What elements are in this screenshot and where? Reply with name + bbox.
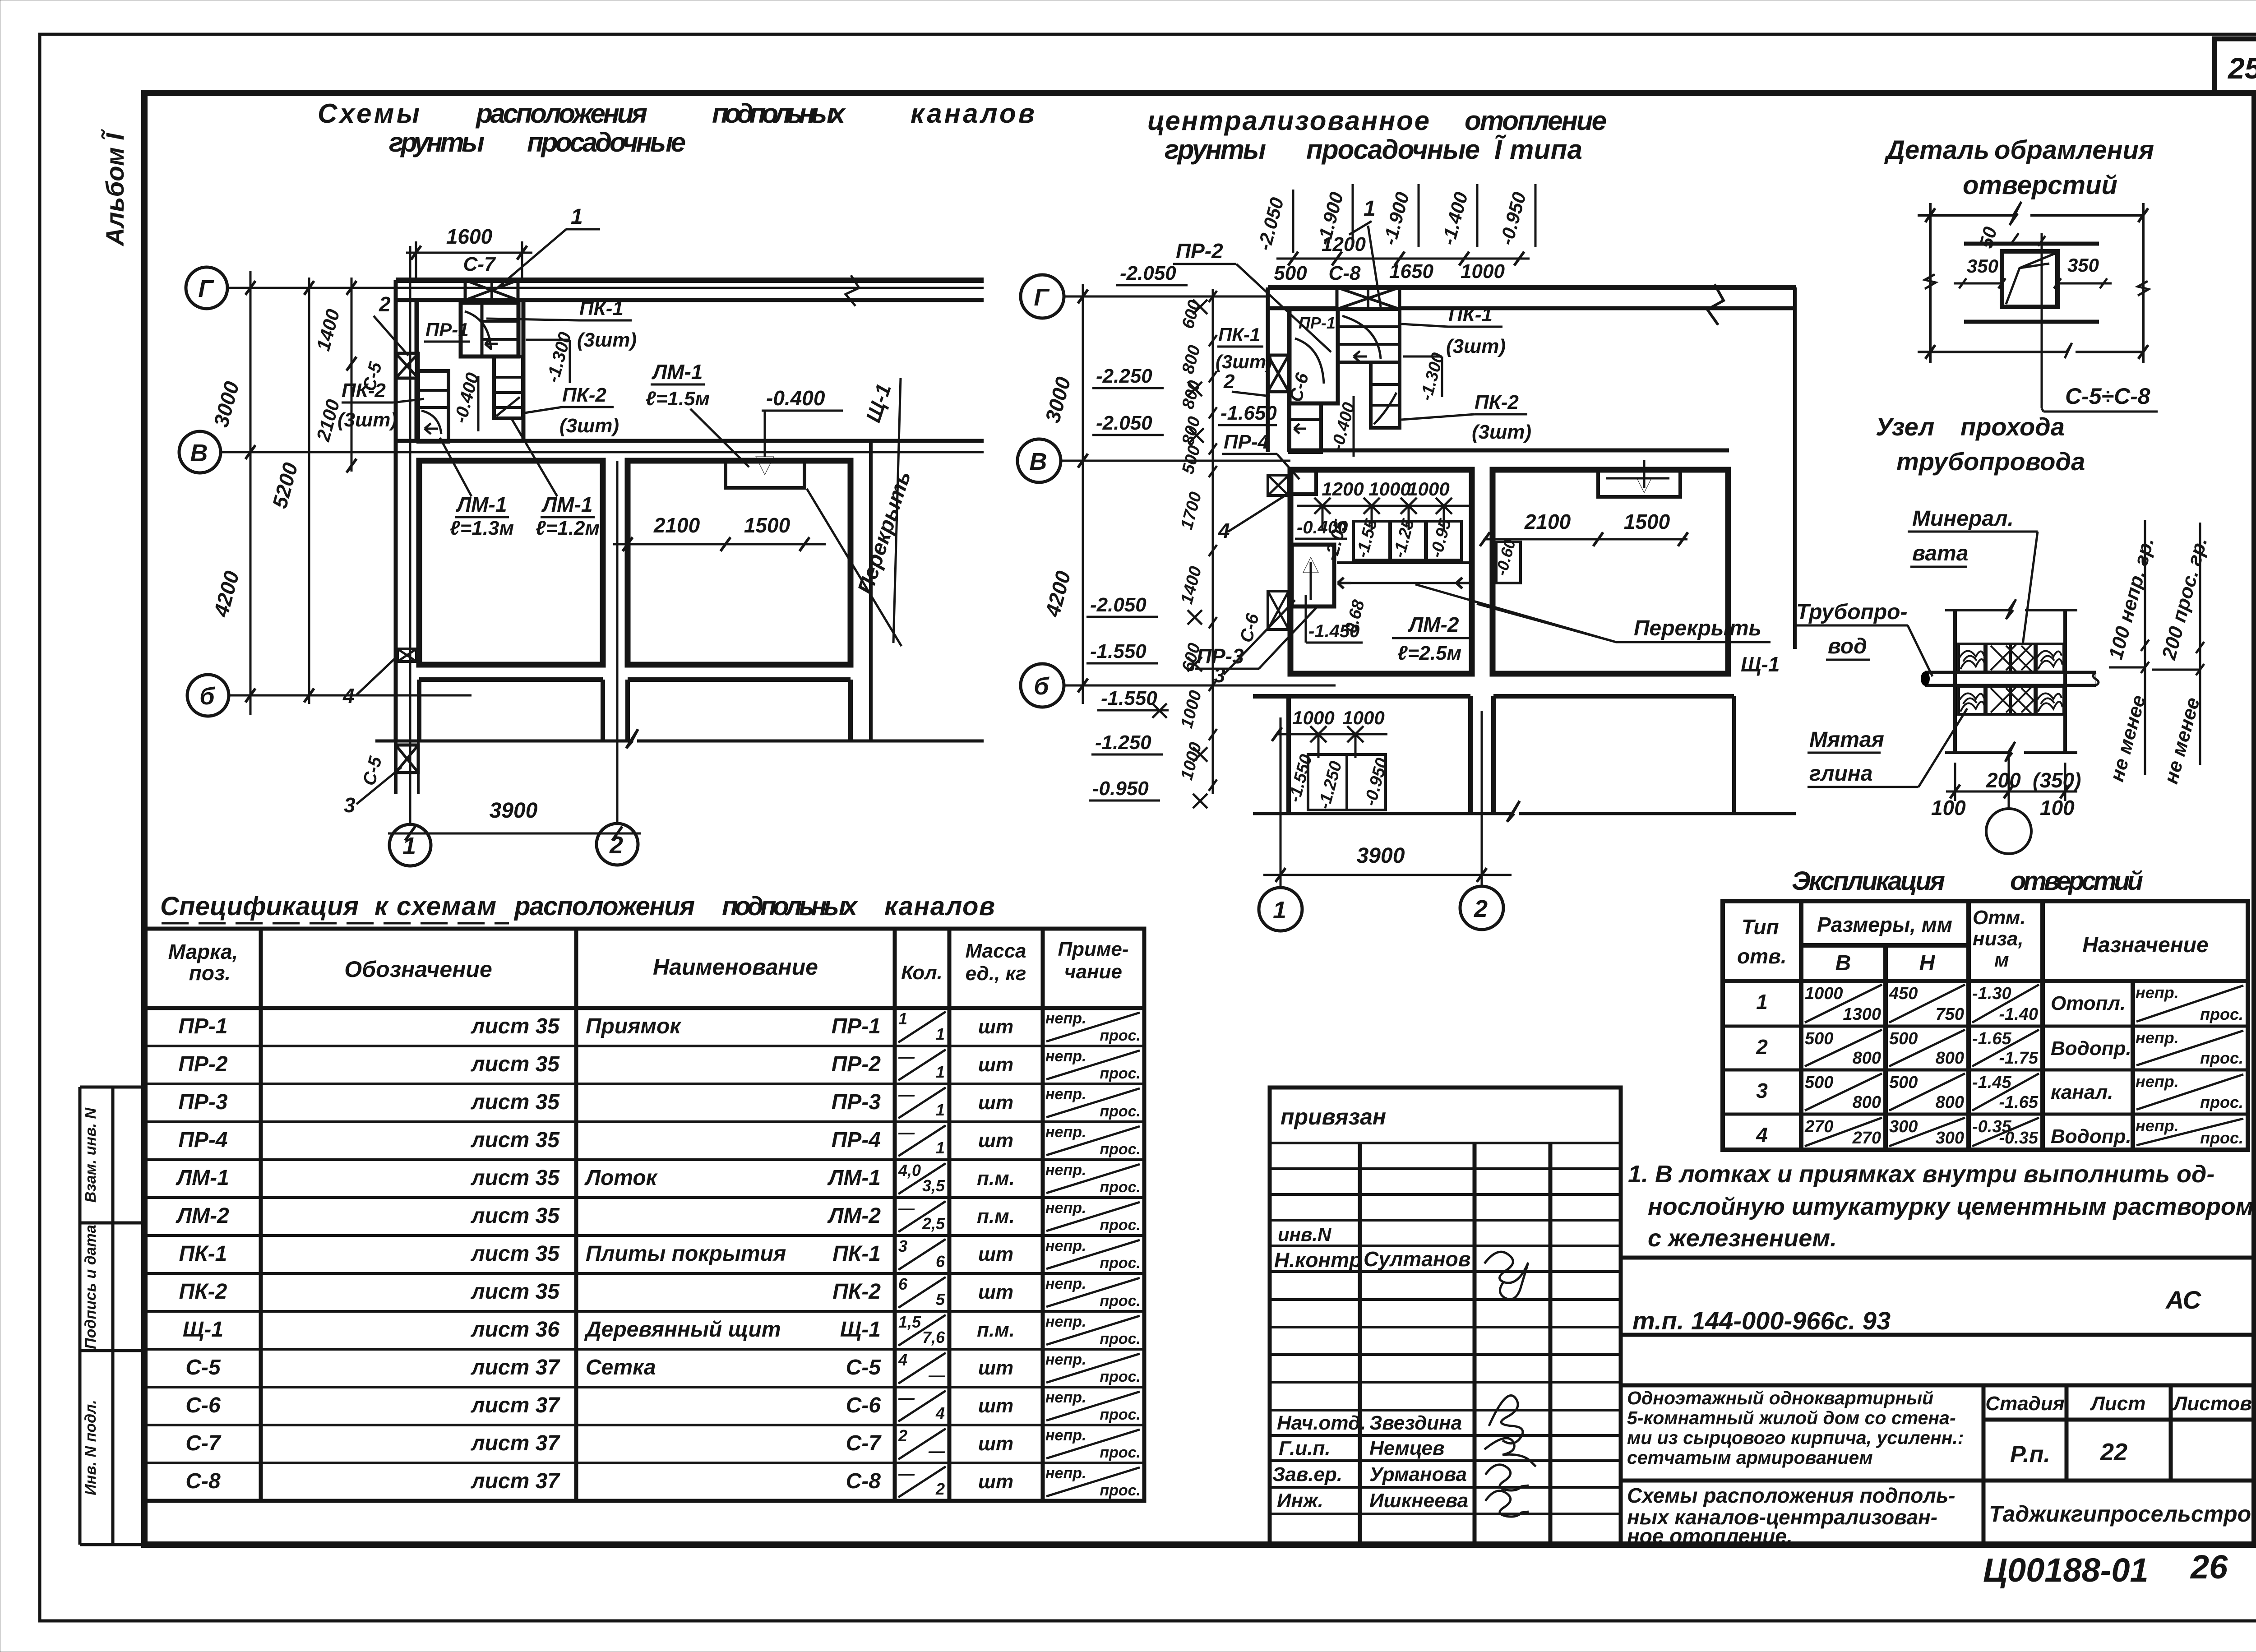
axis circle В bbox=[179, 431, 221, 473]
svg-text:-1.900: -1.900 bbox=[1379, 190, 1413, 247]
svg-text:Трубопро-: Трубопро- bbox=[1796, 600, 1907, 624]
svg-text:2: 2 bbox=[1474, 895, 1488, 922]
specification table grid bbox=[145, 929, 1144, 1501]
C-7 cross box bbox=[465, 280, 518, 300]
svg-text:6: 6 bbox=[898, 1275, 908, 1293]
svg-text:просадочные: просадочные bbox=[527, 127, 686, 157]
axis circle 2 right bbox=[1460, 886, 1503, 930]
svg-text:1000: 1000 bbox=[1407, 478, 1449, 500]
svg-text:22: 22 bbox=[2100, 1439, 2127, 1466]
svg-text:прос.: прос. bbox=[1100, 1141, 1141, 1158]
svg-text:низа,: низа, bbox=[1973, 928, 2024, 950]
svg-text:1000: 1000 bbox=[1342, 707, 1384, 728]
svg-text:—: — bbox=[898, 1123, 915, 1142]
svg-text:ПК-2: ПК-2 bbox=[562, 384, 606, 406]
svg-text:Немцев: Немцев bbox=[1369, 1437, 1445, 1459]
svg-text:-1.25: -1.25 bbox=[1390, 517, 1418, 560]
svg-text:ПР-1: ПР-1 bbox=[425, 319, 469, 340]
svg-text:ПР-4: ПР-4 bbox=[178, 1128, 227, 1152]
svg-text:1: 1 bbox=[1364, 197, 1376, 221]
svg-text:шт: шт bbox=[978, 1281, 1013, 1303]
svg-text:—: — bbox=[898, 1085, 915, 1104]
right room bbox=[628, 461, 851, 665]
svg-text:прос.: прос. bbox=[2200, 1093, 2243, 1111]
svg-text:ПК-2: ПК-2 bbox=[179, 1280, 227, 1304]
svg-text:(350): (350) bbox=[2033, 768, 2081, 792]
svg-text:2: 2 bbox=[1756, 1035, 1768, 1059]
right min-distance dims bbox=[2144, 520, 2146, 775]
PR-3 pit bbox=[1292, 545, 1334, 606]
axis circle 1 right bbox=[1259, 888, 1302, 931]
svg-text:Альбом Ĩ: Альбом Ĩ bbox=[101, 129, 129, 247]
svg-text:С-8: С-8 bbox=[185, 1469, 221, 1493]
node circle bbox=[2008, 753, 2010, 809]
svg-text:ПК-1: ПК-1 bbox=[179, 1242, 227, 1266]
svg-text:-0.95: -0.95 bbox=[1427, 517, 1455, 560]
svg-text:ℓ=1.3м: ℓ=1.3м bbox=[450, 517, 514, 539]
svg-text:нослойную штукатурку цементным: нослойную штукатурку цементным раствором bbox=[1648, 1193, 2254, 1220]
svg-text:непр.: непр. bbox=[1045, 1427, 1086, 1444]
LM-1 trench inset right room bbox=[726, 461, 804, 488]
PR-1 right plan bbox=[1290, 309, 1338, 403]
svg-text:2100: 2100 bbox=[653, 514, 700, 537]
svg-text:прос.: прос. bbox=[1100, 1103, 1141, 1120]
axis line Б right bbox=[1064, 685, 1336, 687]
svg-text:450: 450 bbox=[1889, 984, 1918, 1003]
svg-text:С-8: С-8 bbox=[846, 1469, 881, 1493]
svg-text:отв.: отв. bbox=[1737, 944, 1787, 968]
svg-text:шт: шт bbox=[978, 1016, 1013, 1038]
bottom edge line with break bbox=[375, 740, 632, 743]
svg-text:Приме-: Приме- bbox=[1058, 938, 1128, 960]
svg-text:1: 1 bbox=[936, 1101, 945, 1119]
svg-text:(3шт): (3шт) bbox=[1216, 351, 1272, 372]
svg-text:0.68: 0.68 bbox=[1341, 597, 1368, 635]
PR-4 notch in left room bbox=[1290, 470, 1316, 494]
svg-text:1: 1 bbox=[1756, 990, 1768, 1013]
svg-text:шт: шт bbox=[978, 1243, 1013, 1265]
svg-text:—: — bbox=[898, 1047, 915, 1066]
svg-text:непр.: непр. bbox=[1045, 1199, 1086, 1217]
svg-text:100: 100 bbox=[2040, 796, 2075, 819]
stamp signature 1 bbox=[1484, 1252, 1528, 1299]
svg-text:Н.контр: Н.контр bbox=[1274, 1248, 1362, 1272]
svg-text:Ĩ типа: Ĩ типа bbox=[1494, 134, 1582, 165]
svg-text:50: 50 bbox=[1975, 225, 2001, 250]
svg-text:ПР-4: ПР-4 bbox=[832, 1128, 881, 1152]
svg-text:ЛМ-2: ЛМ-2 bbox=[827, 1204, 881, 1228]
arrow into trench bbox=[1643, 460, 1646, 488]
svg-text:отверстий: отверстий bbox=[2010, 866, 2143, 896]
svg-text:(3шт): (3шт) bbox=[577, 329, 637, 351]
wall break top right bbox=[846, 275, 859, 306]
svg-text:прос.: прос. bbox=[2200, 1005, 2243, 1023]
svg-text:ПР-3: ПР-3 bbox=[832, 1090, 881, 1114]
svg-text:1: 1 bbox=[936, 1063, 945, 1081]
svg-text:5-комнатный жилой дом со стена: 5-комнатный жилой дом со стена- bbox=[1627, 1407, 1956, 1428]
left room bbox=[419, 461, 603, 665]
svg-text:Деталь: Деталь bbox=[1884, 135, 1989, 165]
svg-text:ПК-1: ПК-1 bbox=[1448, 304, 1493, 326]
svg-text:Р.п.: Р.п. bbox=[2010, 1441, 2050, 1467]
svg-text:лист 35: лист 35 bbox=[471, 1280, 560, 1304]
leader 1 to C-7 bbox=[496, 229, 566, 289]
svg-text:прос.: прос. bbox=[2200, 1129, 2243, 1147]
svg-text:Урманова: Урманова bbox=[1369, 1463, 1467, 1485]
trench inset right room bbox=[1598, 470, 1680, 497]
svg-text:к схемам: к схемам bbox=[374, 892, 496, 921]
svg-text:1200: 1200 bbox=[1322, 478, 1364, 500]
svg-text:1: 1 bbox=[898, 1009, 907, 1028]
svg-text:Стадия: Стадия bbox=[1985, 1393, 2064, 1415]
svg-text:лист 35: лист 35 bbox=[471, 1014, 560, 1038]
B axis wall lower band bbox=[1253, 694, 1470, 699]
svg-text:С-8: С-8 bbox=[1329, 262, 1361, 284]
svg-text:-0.950: -0.950 bbox=[1361, 756, 1392, 808]
svg-text:ПР-3: ПР-3 bbox=[1197, 644, 1244, 668]
svg-text:3000: 3000 bbox=[1040, 374, 1075, 425]
axis line 2 bbox=[616, 461, 619, 824]
svg-text:прос.: прос. bbox=[1100, 1406, 1141, 1423]
stamp signatures names bbox=[1489, 1396, 1523, 1444]
svg-text:прос.: прос. bbox=[1100, 1368, 1141, 1385]
svg-text:каналов: каналов bbox=[911, 98, 1035, 129]
svg-text:Тип: Тип bbox=[1742, 915, 1779, 939]
svg-text:1. В лотках и приямках внутри: 1. В лотках и приямках внутри выполнить … bbox=[1628, 1161, 2214, 1188]
axis line Б bbox=[229, 694, 472, 697]
axis circle Г right bbox=[1021, 275, 1064, 318]
svg-text:1: 1 bbox=[936, 1138, 945, 1157]
svg-text:7,6: 7,6 bbox=[922, 1328, 945, 1347]
svg-text:С-6: С-6 bbox=[846, 1393, 881, 1417]
svg-text:Щ-1: Щ-1 bbox=[840, 1318, 881, 1342]
svg-text:АС: АС bbox=[2165, 1286, 2202, 1314]
svg-text:подпольных: подпольных bbox=[722, 892, 859, 921]
svg-text:С-6: С-6 bbox=[1236, 611, 1263, 644]
svg-text:(3шт): (3шт) bbox=[1472, 421, 1531, 443]
svg-text:лист 35: лист 35 bbox=[471, 1166, 560, 1190]
svg-text:800: 800 bbox=[1936, 1049, 1964, 1068]
right edge top bbox=[1793, 287, 1797, 649]
svg-text:1400: 1400 bbox=[312, 307, 344, 353]
svg-text:Ишкнеева: Ишкнеева bbox=[1369, 1490, 1468, 1512]
svg-text:Лоток: Лоток bbox=[584, 1166, 658, 1190]
svg-text:ное отопление.: ное отопление. bbox=[1627, 1524, 1793, 1548]
svg-text:Водопр.: Водопр. bbox=[2051, 1037, 2131, 1060]
left wall lower stub bbox=[394, 741, 398, 794]
svg-text:3900: 3900 bbox=[490, 799, 538, 823]
axis line В right bbox=[1061, 460, 1290, 462]
svg-text:1200: 1200 bbox=[1322, 233, 1366, 255]
axis line В bbox=[221, 451, 984, 453]
svg-text:Масса: Масса bbox=[965, 940, 1026, 962]
svg-text:1700: 1700 bbox=[1177, 490, 1205, 532]
lower channel right plan bbox=[1371, 362, 1400, 428]
svg-text:5: 5 bbox=[936, 1290, 945, 1309]
svg-text:4: 4 bbox=[342, 684, 355, 708]
svg-text:прос.: прос. bbox=[1100, 1330, 1141, 1347]
svg-text:800: 800 bbox=[1936, 1093, 1964, 1112]
svg-text:непр.: непр. bbox=[1045, 1237, 1086, 1254]
stamp left table bbox=[1270, 1087, 1621, 1545]
svg-text:3900: 3900 bbox=[1357, 844, 1405, 868]
svg-text:3: 3 bbox=[1756, 1079, 1768, 1102]
svg-text:100: 100 bbox=[1931, 796, 1966, 819]
svg-text:3: 3 bbox=[898, 1237, 907, 1255]
svg-text:ℓ=2.5м: ℓ=2.5м bbox=[1397, 642, 1461, 664]
svg-text:(3шт): (3шт) bbox=[337, 409, 397, 431]
svg-text:ПР-2: ПР-2 bbox=[832, 1052, 881, 1076]
svg-text:С-7: С-7 bbox=[846, 1431, 882, 1455]
svg-text:лист 35: лист 35 bbox=[471, 1090, 560, 1114]
stamp right horizontal lines bbox=[1621, 1258, 2255, 1481]
svg-text:Взам. инв. N: Взам. инв. N bbox=[82, 1107, 99, 1203]
svg-text:-1.550: -1.550 bbox=[1101, 687, 1157, 709]
svg-text:лист 36: лист 36 bbox=[471, 1318, 560, 1342]
svg-text:прохода: прохода bbox=[1960, 412, 2065, 441]
square frame bbox=[2002, 251, 2057, 307]
svg-text:ЛМ-2: ЛМ-2 bbox=[176, 1204, 229, 1228]
svg-text:п.м.: п.м. bbox=[977, 1205, 1015, 1227]
svg-text:лист 35: лист 35 bbox=[471, 1242, 560, 1266]
svg-text:непр.: непр. bbox=[1045, 1161, 1086, 1179]
svg-text:привязан: привязан bbox=[1281, 1104, 1386, 1129]
svg-text:С-6: С-6 bbox=[185, 1393, 221, 1417]
svg-text:Звездина: Звездина bbox=[1369, 1412, 1462, 1434]
stage/sheet header bbox=[1983, 1385, 2255, 1545]
svg-text:шт: шт bbox=[978, 1433, 1013, 1455]
axis line Г right bbox=[1064, 296, 1268, 298]
svg-text:непр.: непр. bbox=[1045, 1389, 1086, 1406]
svg-text:прос.: прос. bbox=[1100, 1179, 1141, 1196]
svg-text:Г: Г bbox=[1034, 284, 1050, 311]
svg-text:ПР-3: ПР-3 bbox=[178, 1090, 228, 1114]
svg-text:1500: 1500 bbox=[744, 514, 791, 537]
svg-text:800: 800 bbox=[1853, 1049, 1881, 1068]
svg-text:-2.050: -2.050 bbox=[1120, 262, 1176, 284]
svg-text:лист 37: лист 37 bbox=[471, 1356, 561, 1379]
svg-text:1500: 1500 bbox=[1624, 510, 1670, 533]
svg-text:ПР-2: ПР-2 bbox=[1176, 239, 1223, 263]
svg-text:Щ-1: Щ-1 bbox=[1741, 652, 1780, 676]
svg-text:4: 4 bbox=[1756, 1123, 1768, 1147]
K arrows and connector bbox=[1338, 578, 1351, 588]
svg-text:ПК-2: ПК-2 bbox=[342, 379, 386, 402]
svg-text:не менее: не менее bbox=[2160, 695, 2204, 786]
svg-text:4200: 4200 bbox=[1040, 568, 1075, 620]
B wall band right plan bbox=[1290, 449, 1729, 453]
svg-text:Схемы расположения подполь-: Схемы расположения подполь- bbox=[1627, 1484, 1956, 1507]
bottom dim bbox=[1946, 791, 2077, 793]
side dim lines with breaks bbox=[1929, 203, 1932, 363]
svg-text:ЛМ-2: ЛМ-2 bbox=[1408, 613, 1459, 636]
svg-text:—: — bbox=[928, 1366, 945, 1384]
svg-text:прос.: прос. bbox=[1100, 1027, 1141, 1044]
svg-text:ПР-1: ПР-1 bbox=[1299, 314, 1336, 332]
svg-text:3,5: 3,5 bbox=[922, 1176, 945, 1195]
svg-text:2: 2 bbox=[898, 1426, 907, 1445]
svg-text:лист 35: лист 35 bbox=[471, 1052, 560, 1076]
svg-text:прос.: прос. bbox=[1100, 1065, 1141, 1082]
svg-text:непр.: непр. bbox=[1045, 1124, 1086, 1141]
svg-text:ед., кг: ед., кг bbox=[966, 963, 1026, 985]
svg-text:Схемы: Схемы bbox=[318, 98, 420, 129]
svg-text:Водопр.: Водопр. bbox=[2051, 1125, 2131, 1148]
svg-text:1650: 1650 bbox=[1389, 260, 1433, 282]
svg-text:Н: Н bbox=[1919, 951, 1936, 975]
svg-text:непр.: непр. bbox=[2136, 983, 2179, 1002]
leader to C-5 - C-8 bbox=[2042, 408, 2043, 412]
svg-text:С-7: С-7 bbox=[463, 253, 496, 275]
svg-text:26: 26 bbox=[2190, 1548, 2228, 1586]
svg-text:шт: шт bbox=[978, 1471, 1013, 1493]
svg-text:1: 1 bbox=[571, 205, 583, 229]
svg-text:-2.050: -2.050 bbox=[1096, 412, 1152, 434]
svg-text:чание: чание bbox=[1064, 961, 1122, 983]
svg-text:ПК-1: ПК-1 bbox=[579, 297, 624, 319]
svg-text:1000: 1000 bbox=[1177, 740, 1205, 782]
svg-text:Деревянный щит: Деревянный щит bbox=[584, 1318, 781, 1342]
C-6 lower box bbox=[1268, 591, 1289, 629]
svg-text:трубопровода: трубопровода bbox=[1896, 447, 2085, 476]
explication table grid bbox=[1723, 901, 2248, 1150]
svg-text:В: В bbox=[1030, 448, 1047, 475]
svg-text:ми из сырцового кирпича, усиле: ми из сырцового кирпича, усиленн.: bbox=[1627, 1427, 1964, 1448]
svg-text:Размеры, мм: Размеры, мм bbox=[1817, 913, 1952, 936]
svg-text:с железнением.: с железнением. bbox=[1648, 1225, 1837, 1252]
bottom dim line bbox=[1918, 351, 2066, 353]
svg-text:п.м.: п.м. bbox=[977, 1167, 1015, 1189]
svg-text:прос.: прос. bbox=[1100, 1254, 1141, 1272]
svg-text:Подпись и дата: Подпись и дата bbox=[82, 1225, 99, 1349]
svg-text:-1.650: -1.650 bbox=[1220, 402, 1277, 424]
svg-text:Приямок: Приямок bbox=[586, 1014, 682, 1038]
svg-text:-1.65: -1.65 bbox=[1972, 1029, 2011, 1048]
svg-text:Султанов: Султанов bbox=[1364, 1247, 1471, 1271]
svg-text:3: 3 bbox=[344, 793, 356, 817]
svg-text:непр.: непр. bbox=[1045, 1313, 1086, 1330]
axis circle Г bbox=[186, 267, 227, 309]
svg-text:непр.: непр. bbox=[1045, 1275, 1086, 1292]
sheet number box bbox=[2214, 39, 2256, 93]
building top wall bbox=[396, 278, 984, 283]
svg-text:ПК-1: ПК-1 bbox=[832, 1242, 881, 1266]
filing strip columns bbox=[80, 1087, 144, 1545]
svg-text:270: 270 bbox=[1804, 1117, 1833, 1136]
axis line 1 right bbox=[1280, 717, 1282, 887]
svg-text:п.м.: п.м. bbox=[977, 1319, 1015, 1341]
axis line Г bbox=[227, 287, 984, 289]
svg-text:Ц00188-01: Ц00188-01 bbox=[1983, 1551, 2149, 1589]
small pit below PR-1 bbox=[1290, 403, 1321, 452]
svg-text:1000: 1000 bbox=[1292, 707, 1334, 728]
svg-text:-1.400: -1.400 bbox=[1438, 190, 1472, 247]
svg-text:прос.: прос. bbox=[1100, 1444, 1141, 1461]
axis circle В right bbox=[1017, 439, 1061, 482]
svg-text:грунты: грунты bbox=[389, 127, 485, 157]
svg-text:м: м bbox=[1994, 949, 2009, 971]
svg-text:-1.40: -1.40 bbox=[1999, 1005, 2038, 1024]
PR-1 pit bbox=[461, 303, 518, 356]
svg-text:поз.: поз. bbox=[189, 961, 231, 985]
svg-text:прос.: прос. bbox=[2200, 1049, 2243, 1067]
dim line 5200 bbox=[308, 278, 310, 704]
C-6 cross box upper bbox=[1268, 355, 1289, 392]
svg-text:расположения: расположения bbox=[475, 98, 647, 129]
B axis wall band bbox=[396, 439, 984, 443]
svg-text:Марка,: Марка, bbox=[168, 940, 238, 963]
svg-text:вод: вод bbox=[1828, 634, 1867, 658]
svg-text:шт: шт bbox=[978, 1129, 1013, 1152]
svg-text:2: 2 bbox=[379, 292, 391, 316]
svg-text:Г.и.п.: Г.и.п. bbox=[1279, 1437, 1331, 1459]
dim 2100/1500 bbox=[613, 543, 826, 546]
svg-text:С-5: С-5 bbox=[846, 1356, 882, 1379]
svg-text:1000: 1000 bbox=[1461, 260, 1505, 282]
svg-text:ЛМ-1: ЛМ-1 bbox=[827, 1166, 881, 1190]
svg-text:ℓ=1.2м: ℓ=1.2м bbox=[536, 517, 600, 539]
svg-text:шт: шт bbox=[978, 1054, 1013, 1076]
cluster left wall bbox=[1266, 287, 1270, 452]
svg-text:-1.45: -1.45 bbox=[1972, 1073, 2011, 1092]
left room LM-2 bbox=[1290, 470, 1472, 674]
svg-text:лист 35: лист 35 bbox=[471, 1128, 560, 1152]
svg-text:1000: 1000 bbox=[1177, 689, 1205, 731]
svg-text:С-5: С-5 bbox=[185, 1356, 221, 1379]
svg-text:2,5: 2,5 bbox=[922, 1214, 945, 1233]
svg-text:ЛМ-1: ЛМ-1 bbox=[652, 360, 703, 384]
svg-text:-1.55: -1.55 bbox=[1353, 517, 1381, 560]
three elevation boxes bbox=[1354, 521, 1390, 560]
svg-text:-1.250: -1.250 bbox=[1315, 759, 1345, 811]
svg-text:ПР-1: ПР-1 bbox=[832, 1014, 881, 1038]
svg-text:-0.400: -0.400 bbox=[766, 386, 825, 410]
axis circle Б right bbox=[1021, 664, 1064, 707]
svg-text:не менее: не менее bbox=[2106, 693, 2150, 784]
top dim line with break bbox=[1918, 214, 2013, 217]
svg-text:б: б bbox=[1034, 673, 1049, 700]
svg-text:Инж.: Инж. bbox=[1277, 1490, 1323, 1512]
axis circle 1 bbox=[389, 824, 431, 866]
svg-text:Мятая: Мятая bbox=[1809, 728, 1884, 752]
svg-text:Перекрыть: Перекрыть bbox=[1634, 616, 1761, 640]
svg-text:лист 37: лист 37 bbox=[471, 1469, 561, 1493]
lower elevation boxes bbox=[1308, 754, 1386, 810]
-0.400 bracket right plan bbox=[1353, 396, 1355, 457]
svg-text:1300: 1300 bbox=[1843, 1005, 1881, 1024]
svg-text:Лист: Лист bbox=[2090, 1393, 2146, 1415]
svg-text:ЛМ-1: ЛМ-1 bbox=[541, 493, 593, 516]
svg-text:-0.950: -0.950 bbox=[1496, 190, 1530, 247]
svg-text:Одноэтажный одноквартирный: Одноэтажный одноквартирный bbox=[1627, 1388, 1933, 1408]
wall break right bbox=[1707, 284, 1724, 325]
svg-text:С-7: С-7 bbox=[185, 1431, 222, 1455]
svg-text:Узел: Узел bbox=[1876, 412, 1934, 441]
svg-text:1: 1 bbox=[936, 1025, 945, 1043]
svg-text:грунты: грунты bbox=[1165, 134, 1266, 165]
svg-text:1000: 1000 bbox=[1368, 478, 1410, 500]
svg-text:100 непр. гр.: 100 непр. гр. bbox=[2104, 535, 2158, 662]
dim line 3000/4200 bbox=[250, 271, 252, 715]
svg-text:глина: глина bbox=[1809, 762, 1872, 786]
svg-text:Нач.отд.: Нач.отд. bbox=[1277, 1412, 1366, 1434]
svg-text:-2.050: -2.050 bbox=[1090, 594, 1146, 616]
svg-text:-1.75: -1.75 bbox=[1999, 1049, 2038, 1068]
top dim line right plan bbox=[1276, 258, 1530, 260]
svg-text:1: 1 bbox=[1273, 897, 1286, 924]
svg-text:2: 2 bbox=[1223, 370, 1235, 393]
svg-text:Зав.ер.: Зав.ер. bbox=[1272, 1463, 1342, 1485]
